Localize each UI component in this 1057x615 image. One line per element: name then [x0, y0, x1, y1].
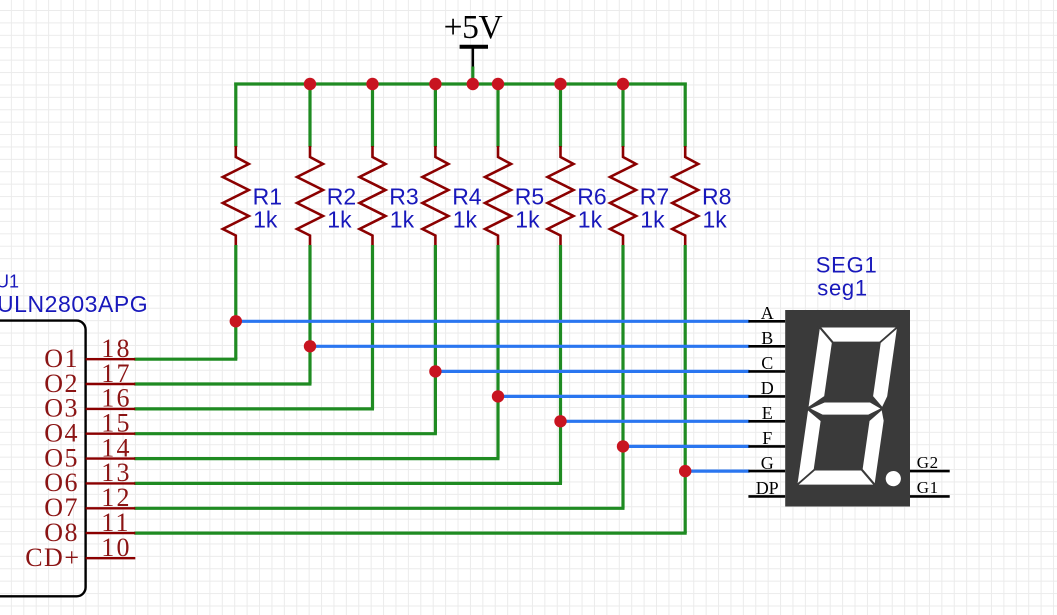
resistor R6: [548, 146, 574, 246]
wire bus to R8: [684, 83, 687, 148]
svg-text:G2: G2: [917, 453, 939, 472]
svg-text:D: D: [761, 378, 774, 398]
junction bus R5: [492, 78, 504, 90]
svg-text:1k: 1k: [327, 206, 352, 232]
junction segment B: [304, 340, 316, 352]
svg-text:F: F: [762, 428, 772, 448]
svg-text:1k: 1k: [253, 206, 278, 232]
junction segment F: [617, 440, 629, 452]
seven-segment display SEG1 body: [785, 310, 910, 507]
display pin F: [748, 445, 785, 448]
display pin E: [748, 420, 785, 423]
wire O2 horizontal: [134, 382, 311, 385]
wire O8 horizontal: [134, 531, 686, 534]
resistor R4: [422, 146, 448, 246]
junction bus R3: [366, 78, 378, 90]
wire bus to R3: [371, 83, 374, 148]
wire R7 to O7 row: [621, 245, 624, 508]
svg-text:A: A: [761, 303, 774, 323]
display pin C: [748, 370, 785, 373]
display pin G2: [910, 470, 950, 473]
wire R3 to O3 row: [371, 245, 374, 409]
junction bus R4: [429, 78, 441, 90]
pin line O4: [86, 433, 136, 435]
svg-text:CD+: CD+: [25, 543, 80, 572]
svg-text:G1: G1: [917, 478, 939, 497]
wire +5V bus: [234, 82, 686, 85]
wire segment E: [561, 420, 750, 423]
resistor R8: [672, 146, 698, 246]
svg-text:1k: 1k: [515, 206, 540, 232]
wire O3 horizontal: [134, 407, 374, 410]
wire O7 horizontal: [134, 507, 624, 510]
display pin DP: [748, 495, 785, 498]
wire bus to R5: [496, 83, 499, 148]
svg-text:1k: 1k: [453, 206, 478, 232]
wire R1 to O1 row: [234, 245, 237, 359]
display pin G1: [910, 495, 950, 498]
wire O5 horizontal: [134, 457, 499, 460]
wire segment B: [310, 345, 749, 348]
wire segment A: [236, 320, 750, 323]
wire R4 to O4 row: [434, 245, 437, 434]
resistor R7: [610, 146, 636, 246]
junction bus +5V: [467, 78, 479, 90]
wire O1 horizontal: [134, 358, 237, 361]
junction segment C: [429, 365, 441, 377]
junction bus R2: [304, 78, 316, 90]
junction bus R6: [554, 78, 566, 90]
svg-text:1k: 1k: [640, 206, 665, 232]
svg-text:DP: DP: [756, 478, 779, 498]
pin line O3: [86, 408, 136, 410]
seven-segment digit: [796, 327, 898, 486]
junction segment G: [679, 465, 691, 477]
wire +5V stub: [471, 67, 474, 85]
svg-text:10: 10: [101, 533, 131, 562]
+5V power symbol bar: [460, 45, 488, 49]
wire R2 to O2 row: [308, 245, 311, 384]
wire segment C: [435, 370, 749, 373]
wire O4 horizontal: [134, 432, 437, 435]
IC U1 ULN2803APG body: [0, 321, 86, 597]
svg-text:G: G: [761, 453, 774, 473]
wire O6 horizontal: [134, 482, 562, 485]
pin line O1: [86, 358, 136, 360]
wire bus to R7: [621, 83, 624, 148]
svg-text:1k: 1k: [578, 206, 603, 232]
svg-text:B: B: [761, 328, 773, 348]
svg-text:1k: 1k: [390, 206, 415, 232]
svg-text:+5V: +5V: [444, 9, 503, 46]
svg-text:1k: 1k: [703, 206, 728, 232]
junction segment E: [554, 415, 566, 427]
pin line O5: [86, 457, 136, 459]
svg-text:ULN2803APG: ULN2803APG: [0, 291, 148, 317]
junction segment A: [230, 315, 242, 327]
display pin G: [748, 470, 785, 473]
+5V symbol stem: [471, 47, 474, 68]
svg-text:E: E: [762, 403, 773, 423]
wire bus to R6: [559, 83, 562, 148]
pin line O2: [86, 383, 136, 385]
junction segment D: [492, 390, 504, 402]
pin line CD+: [86, 557, 136, 559]
wire segment G: [685, 470, 749, 473]
svg-text:SEG1: SEG1: [816, 252, 878, 277]
pin line O6: [86, 482, 136, 484]
junction bus R7: [617, 78, 629, 90]
wire segment D: [498, 395, 749, 398]
svg-text:C: C: [761, 353, 773, 373]
svg-text:seg1: seg1: [817, 275, 868, 300]
wire R6 to O6 row: [559, 245, 562, 483]
resistor R1: [223, 146, 249, 246]
display pin A: [748, 320, 785, 323]
decimal point: [886, 471, 901, 486]
display pin B: [748, 345, 785, 348]
resistor R2: [297, 146, 323, 246]
pin line O8: [86, 532, 136, 534]
wire bus to R2: [308, 83, 311, 148]
svg-text:U1: U1: [0, 272, 19, 292]
wire segment F: [623, 445, 749, 448]
resistor R5: [485, 146, 511, 246]
wire R5 to O5 row: [496, 245, 499, 459]
pin line O7: [86, 507, 136, 509]
wire bus to R4: [434, 83, 437, 148]
wire R8 to O8 row: [684, 245, 687, 533]
resistor R3: [360, 146, 386, 246]
display pin D: [748, 395, 785, 398]
wire bus to R1: [234, 83, 237, 148]
